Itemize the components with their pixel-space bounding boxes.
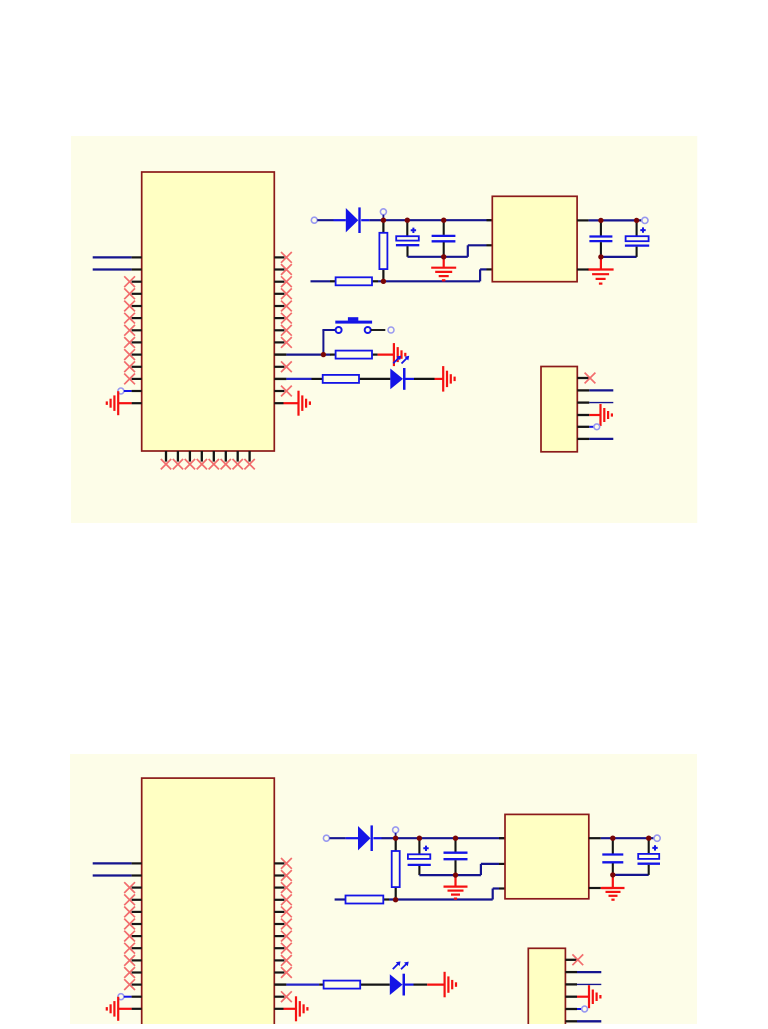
no-connect X at pin 7 xyxy=(281,931,292,942)
wire U2 pin to GND2 xyxy=(589,268,600,270)
ground node junction sheet2 xyxy=(453,872,458,877)
pin 3 (left) xyxy=(132,281,142,283)
no-connect X at pin 2 xyxy=(281,264,292,275)
diode D3 cathode lead xyxy=(373,837,381,839)
pin 12 (right) xyxy=(274,996,284,998)
pin 12 (left) xyxy=(132,996,142,998)
capacitor C9 top plate xyxy=(638,854,659,859)
wire U1 pin13 to ground xyxy=(284,402,299,404)
capacitor C3 bottom stem xyxy=(443,242,445,256)
pin 6 (left) xyxy=(132,317,142,319)
no-connect X at pin 4 xyxy=(124,894,135,905)
pin 5 (left) xyxy=(132,305,142,307)
wire red to LED ground xyxy=(435,378,444,380)
no-connect X at pin 6 xyxy=(281,313,292,324)
junction at C9 top xyxy=(646,836,651,841)
no-connect X at pin 6 xyxy=(124,919,135,930)
no-connect X at pin 1 xyxy=(281,252,292,263)
resistor R1 (vertical) xyxy=(379,233,387,269)
wire D4 cathode xyxy=(405,983,414,985)
node D junction xyxy=(393,836,398,841)
wire J2 pin 5 to terminal xyxy=(577,1008,582,1010)
wire D2 cathode xyxy=(406,378,415,380)
capacitor C7 top stem xyxy=(454,838,456,852)
wire T3 to D3 xyxy=(329,837,345,839)
open terminal at left pin 12 xyxy=(118,388,124,394)
capacitor C6 (polarized) plus xyxy=(423,846,428,851)
power ground at R3 (rotated) xyxy=(394,343,405,366)
no-connect X at pin 3 xyxy=(124,276,135,287)
no-connect X at bottom pin 7 xyxy=(233,459,243,469)
capacitor C8 bottom stem xyxy=(612,863,614,875)
power ground at U3 right (rotated) xyxy=(296,996,307,1021)
junction at C5 top xyxy=(634,218,639,223)
junction at C3 top xyxy=(441,218,446,223)
input terminal T1 xyxy=(311,217,317,223)
bottom pin 6 of U1 xyxy=(225,451,227,462)
node A junction xyxy=(321,352,326,357)
no-connect X at pin 4 xyxy=(281,288,292,299)
wire U3 pin11 to R8 xyxy=(286,983,319,985)
connector J2 body xyxy=(528,948,565,1029)
wire R2 node C to regulator xyxy=(378,269,487,281)
no-connect X at pin 3 xyxy=(281,276,292,287)
capacitor C2 bottom stem xyxy=(406,246,408,256)
wire U3 pin13 to ground xyxy=(284,1008,296,1010)
wire D1 to node B xyxy=(369,219,383,221)
resistor R8 xyxy=(324,981,361,989)
no-connect X at pin 11 xyxy=(124,979,135,990)
junction at C8 top xyxy=(610,836,615,841)
pin 10 (left) xyxy=(132,366,142,368)
wire terminal to pin 12 xyxy=(124,390,132,392)
resistor R5 leads (vertical) xyxy=(395,838,397,900)
ground stem xyxy=(443,259,445,267)
no-connect X at pin 6 xyxy=(124,313,135,324)
capacitor C2 bottom plate xyxy=(396,244,419,246)
pin 4 (left) xyxy=(132,899,142,901)
power ground GND3 xyxy=(444,887,468,899)
lower rail with R6 xyxy=(335,898,346,900)
J2 pin 5 xyxy=(565,1008,577,1010)
wire C6 to C7 bottom xyxy=(419,874,455,876)
output terminal T4 xyxy=(654,835,660,841)
open terminal above node B xyxy=(380,209,386,215)
no-connect X at pin 12 xyxy=(281,386,292,397)
capacitor C3 xyxy=(432,236,456,241)
no-connect X at J2 pin 1 xyxy=(572,954,583,965)
open terminal at button xyxy=(388,327,394,333)
power ground at U1 right (rotated) xyxy=(299,391,310,416)
pin 7 (right) xyxy=(274,935,284,937)
open terminal above node D xyxy=(393,827,399,833)
wire (bus) into left pin 2 xyxy=(93,268,132,270)
capacitor C5 top plate xyxy=(626,236,649,241)
wire J2 pin 4 to ground xyxy=(577,996,589,998)
no-connect X at pin 3 xyxy=(281,882,292,893)
junction at C2 top xyxy=(405,218,410,223)
wire at J2 pin 6 xyxy=(577,1020,601,1022)
no-connect X at pin 8 xyxy=(124,337,135,348)
diode D1 xyxy=(346,207,361,233)
wire at J1 pin 2 xyxy=(589,389,613,391)
input terminal T3 xyxy=(323,835,329,841)
pin 7 (left) xyxy=(132,329,142,331)
capacitor C2 (polarized) plus xyxy=(411,228,416,233)
wire at J2 pin 2 xyxy=(577,971,601,973)
pin 6 (right) xyxy=(274,317,284,319)
no-connect X at pin 9 xyxy=(124,349,135,360)
pin 8 (left) xyxy=(132,341,142,343)
pin 2 (left) xyxy=(132,874,142,876)
regulator U2 top-right pin xyxy=(577,219,589,221)
bottom pin 2 of U1 xyxy=(177,451,179,462)
junction at C8 bottom xyxy=(610,872,615,877)
regulator U4 lower-left pin xyxy=(499,887,505,889)
no-connect X at pin 9 xyxy=(281,955,292,966)
IC U3 body xyxy=(142,778,275,1028)
open terminal at J2 pin 5 xyxy=(582,1006,588,1012)
power ground (left, rotated) xyxy=(107,997,118,1021)
power ground at D2 (rotated) xyxy=(443,366,454,392)
pin 2 (right) xyxy=(274,268,284,270)
power ground at J1 (rotated) xyxy=(601,404,612,426)
pin 12 (left) xyxy=(132,390,142,392)
wire ground node to regulator mid pin xyxy=(444,245,487,256)
no-connect X at bottom pin 6 xyxy=(221,459,231,469)
capacitor C3 top stem xyxy=(443,220,445,235)
no-connect X at pin 7 xyxy=(124,931,135,942)
power ground at D4 (rotated) xyxy=(445,972,456,998)
resistor R3 xyxy=(336,351,372,359)
wire T1 to D1 xyxy=(317,219,333,221)
pin 8 (right) xyxy=(274,947,284,949)
VOUT rail sheet2 xyxy=(601,837,654,839)
wire red to D4 ground xyxy=(427,983,444,985)
pin 8 (right) xyxy=(274,341,284,343)
wire (bus) into left pin 2 xyxy=(93,874,132,876)
capacitor C4 xyxy=(589,237,612,242)
regulator U2 lower-right pin xyxy=(577,268,589,270)
no-connect X at pin 8 xyxy=(124,943,135,954)
VIN rail sheet2 xyxy=(396,837,505,839)
wire terminal to pin 12 xyxy=(124,996,132,998)
resistor R3 leads xyxy=(330,354,378,356)
no-connect X at pin 8 xyxy=(281,337,292,348)
pin 2 (left) xyxy=(132,268,142,270)
regulator U2 body xyxy=(492,196,577,281)
resistor R4 xyxy=(323,375,359,383)
J2 pin 4 xyxy=(565,996,577,998)
resistor R1 leads (vertical) xyxy=(382,220,384,281)
capacitor C6 bottom plate xyxy=(408,864,431,866)
J2 pin 2 xyxy=(565,971,577,973)
power ground GND4 xyxy=(602,888,625,900)
capacitor C5 (polarized) plus xyxy=(640,227,645,232)
no-connect X at pin 11 xyxy=(124,374,135,385)
LED D4 arrows xyxy=(393,961,409,969)
diode D1 anode lead xyxy=(334,219,346,221)
J2 pin 1 xyxy=(565,959,577,961)
wire pin 13 to ground xyxy=(119,1008,132,1010)
bottom pin 5 of U1 xyxy=(213,451,215,462)
wire node A up to button xyxy=(322,330,335,354)
ground stem at U4 output xyxy=(612,877,614,887)
no-connect X at pin 6 xyxy=(281,919,292,930)
J1 pin 1 xyxy=(577,377,589,379)
wire C4 bottom to C5 bottom xyxy=(601,256,637,258)
open terminal at J1 pin 5 xyxy=(594,424,600,430)
resistor R6 xyxy=(346,896,384,904)
resistor R5 (vertical) xyxy=(392,851,400,887)
stem terminal to node B xyxy=(382,215,384,220)
capacitor C9 top stem xyxy=(648,838,650,854)
pin 1 (right) xyxy=(274,862,284,864)
junction at C7 top xyxy=(453,836,458,841)
no-connect X at pin 5 xyxy=(124,907,135,918)
no-connect X at pin 10 xyxy=(281,361,292,372)
pin 11 (left) xyxy=(132,983,142,985)
wire (bus) into left pin 1 xyxy=(93,862,132,864)
J1 pin 2 xyxy=(577,389,589,391)
wire pin 13 to ground xyxy=(119,402,132,404)
no-connect X at pin 4 xyxy=(124,288,135,299)
wire R6 node E to regulator xyxy=(389,889,499,900)
wire ground node to U4 mid pin xyxy=(456,864,500,875)
no-connect X at pin 10 xyxy=(124,361,135,372)
resistor R8 leads xyxy=(319,983,390,985)
J1 pin 3 xyxy=(577,401,589,403)
pin 9 (right) xyxy=(274,959,284,961)
pin 3 (right) xyxy=(274,886,284,888)
regulator U4 top-right pin xyxy=(589,837,601,839)
no-connect X at pin 12 xyxy=(281,991,292,1002)
capacitor C8 top stem xyxy=(612,838,614,853)
wire at J2 pin 3 xyxy=(577,983,601,985)
wire U1 pin9 to node A xyxy=(286,354,330,356)
pin 2 (right) xyxy=(274,874,284,876)
capacitor C4 top stem xyxy=(600,220,602,235)
power ground (left, rotated) xyxy=(107,391,118,415)
wire to LED ground xyxy=(414,378,435,380)
power ground at J2 (rotated) xyxy=(589,985,600,1008)
pin 10 (left) xyxy=(132,971,142,973)
capacitor C7 bottom stem xyxy=(454,860,456,875)
capacitor C4 bottom stem xyxy=(600,242,602,257)
wire C2 to C3 bottom xyxy=(408,256,444,258)
wire C8 bottom to C9 bottom xyxy=(613,874,649,876)
no-connect X at bottom pin 1 xyxy=(161,459,171,469)
no-connect X at pin 8 xyxy=(281,943,292,954)
wire (bus) into left pin 1 xyxy=(93,256,132,258)
capacitor C5 top stem xyxy=(636,220,638,236)
sheet 2 background xyxy=(70,754,697,1024)
pin 1 (left) xyxy=(132,862,142,864)
VIN rail xyxy=(383,219,492,221)
bottom pin 7 of U1 xyxy=(237,451,239,462)
power ground GND2 xyxy=(588,270,614,284)
node C junction xyxy=(381,279,386,284)
no-connect X at pin 3 xyxy=(124,882,135,893)
no-connect X at pin 9 xyxy=(124,955,135,966)
node B junction xyxy=(381,218,386,223)
regulator U4 mid-left pin xyxy=(499,863,505,865)
node E junction xyxy=(393,897,398,902)
no-connect X at pin 10 xyxy=(124,967,135,978)
pin 3 (left) xyxy=(132,886,142,888)
pin 13 (left) xyxy=(132,402,142,404)
wire button to terminal xyxy=(371,329,386,331)
capacitor C2 top stem xyxy=(406,220,408,236)
no-connect X at pin 5 xyxy=(281,907,292,918)
J2 pin 6 xyxy=(565,1020,577,1022)
pin 6 (right) xyxy=(274,923,284,925)
pin 10 (right) xyxy=(274,971,284,973)
pin 7 (right) xyxy=(274,329,284,331)
diode D3 anode lead xyxy=(346,837,358,839)
capacitor C6 top stem xyxy=(418,838,420,854)
wire at J1 pin 6 xyxy=(589,438,613,440)
junction at C6 top xyxy=(417,836,422,841)
capacitor C5 bottom stem xyxy=(636,247,638,257)
pin 9 (right) xyxy=(274,353,286,355)
capacitor C9 bottom plate xyxy=(638,863,661,865)
capacitor C6 top plate xyxy=(408,854,430,859)
pin 4 (right) xyxy=(274,899,284,901)
ground stem sheet2 xyxy=(454,877,456,886)
power ground GND1 xyxy=(431,268,456,281)
IC U1 body xyxy=(142,172,275,451)
pin 5 (right) xyxy=(274,305,284,307)
pin 11 (right) xyxy=(274,378,286,380)
push button S1 xyxy=(335,317,372,333)
J1 pin 6 xyxy=(577,438,589,440)
wire J1 pin 5 to terminal xyxy=(589,426,594,428)
no-connect X at bottom pin 5 xyxy=(209,459,219,469)
pin 7 (left) xyxy=(132,935,142,937)
J2 pin 3 xyxy=(565,983,577,985)
junction at C4 bottom xyxy=(598,254,603,259)
connector J1 body xyxy=(541,367,577,452)
bottom pin 3 of U1 xyxy=(189,451,191,462)
no-connect X at pin 5 xyxy=(281,301,292,312)
junction at C4 top xyxy=(598,218,603,223)
wire D3 to node D xyxy=(382,837,396,839)
no-connect X at bottom pin 3 xyxy=(185,459,195,469)
diode D1 cathode lead xyxy=(361,219,369,221)
pin 10 (right) xyxy=(274,366,284,368)
wire R3 to ground xyxy=(378,354,394,356)
bottom pin 8 of U1 xyxy=(248,451,250,462)
capacitor C5 bottom plate xyxy=(625,244,649,246)
no-connect X at bottom pin 8 xyxy=(244,459,254,469)
pin 6 (left) xyxy=(132,923,142,925)
pin 11 (right) xyxy=(274,983,286,985)
pin 4 (left) xyxy=(132,293,142,295)
LED D2 xyxy=(390,368,405,390)
capacitor C2 top plate xyxy=(396,236,419,240)
no-connect X at pin 10 xyxy=(281,967,292,978)
lower rail with R2 xyxy=(311,280,331,282)
capacitor C8 xyxy=(602,855,623,863)
pin 11 (left) xyxy=(132,378,142,380)
resistor R4 leads xyxy=(312,378,391,380)
capacitor C9 (polarized) plus xyxy=(652,845,657,850)
resistor R2 leads xyxy=(330,280,378,282)
resistor R2 xyxy=(336,277,372,285)
capacitor C9 bottom stem xyxy=(648,865,650,875)
J1 pin 5 xyxy=(577,426,589,428)
open terminal at left pin 12 xyxy=(118,994,124,1000)
regulator U2 top-left pin xyxy=(487,219,493,221)
wire to D4 ground xyxy=(414,983,428,985)
pin 3 (right) xyxy=(274,281,284,283)
no-connect X at pin 5 xyxy=(124,301,135,312)
regulator U2 mid-left pin xyxy=(487,244,493,246)
regulator U4 top-left pin xyxy=(499,837,505,839)
LED D4 xyxy=(390,974,405,996)
wire U1 pin11 to R4 xyxy=(286,378,311,380)
resistor R6 leads xyxy=(383,898,389,900)
no-connect X at pin 2 xyxy=(281,870,292,881)
bottom pin 4 of U1 xyxy=(201,451,203,462)
pin 9 (left) xyxy=(132,959,142,961)
pin 1 (left) xyxy=(132,256,142,258)
pin 13 (left) xyxy=(132,1008,142,1010)
pin 5 (left) xyxy=(132,911,142,913)
wire J1 pin 4 to ground xyxy=(589,414,600,416)
stem terminal to node D xyxy=(395,833,397,838)
regulator U4 body xyxy=(505,814,589,898)
ground stem at U2 output xyxy=(600,259,602,268)
pin 13 (right) xyxy=(274,1008,283,1010)
pin 8 (left) xyxy=(132,947,142,949)
bottom pin 1 of U1 xyxy=(165,451,167,462)
pin 9 (left) xyxy=(132,354,142,356)
pin 4 (right) xyxy=(274,293,284,295)
regulator U4 lower-right pin xyxy=(589,887,601,889)
no-connect X at pin 1 xyxy=(281,858,292,869)
no-connect X at pin 7 xyxy=(281,325,292,336)
pin 5 (right) xyxy=(274,911,284,913)
wire U4 pin to GND4 xyxy=(601,887,613,889)
pin 1 (right) xyxy=(274,256,284,258)
sheet 1 background xyxy=(71,136,697,523)
J1 pin 4 xyxy=(577,414,589,416)
capacitor C6 bottom stem xyxy=(418,866,420,875)
no-connect X at bottom pin 2 xyxy=(173,459,183,469)
regulator U2 lower-left pin xyxy=(487,268,493,270)
no-connect X at bottom pin 4 xyxy=(197,459,207,469)
capacitor C7 xyxy=(444,853,468,860)
no-connect X at pin 4 xyxy=(281,894,292,905)
no-connect X at pin 7 xyxy=(124,325,135,336)
ground node junction xyxy=(441,254,446,259)
LED D2 arrows xyxy=(393,356,409,364)
no-connect X at J1 pin 1 xyxy=(585,373,596,384)
wire at J1 pin 3 xyxy=(589,402,613,404)
diode D3 xyxy=(358,825,373,851)
VOUT rail xyxy=(589,219,642,221)
output terminal T2 xyxy=(642,217,648,223)
pin 13 (right) xyxy=(274,402,283,404)
pin 12 (right) xyxy=(274,390,284,392)
